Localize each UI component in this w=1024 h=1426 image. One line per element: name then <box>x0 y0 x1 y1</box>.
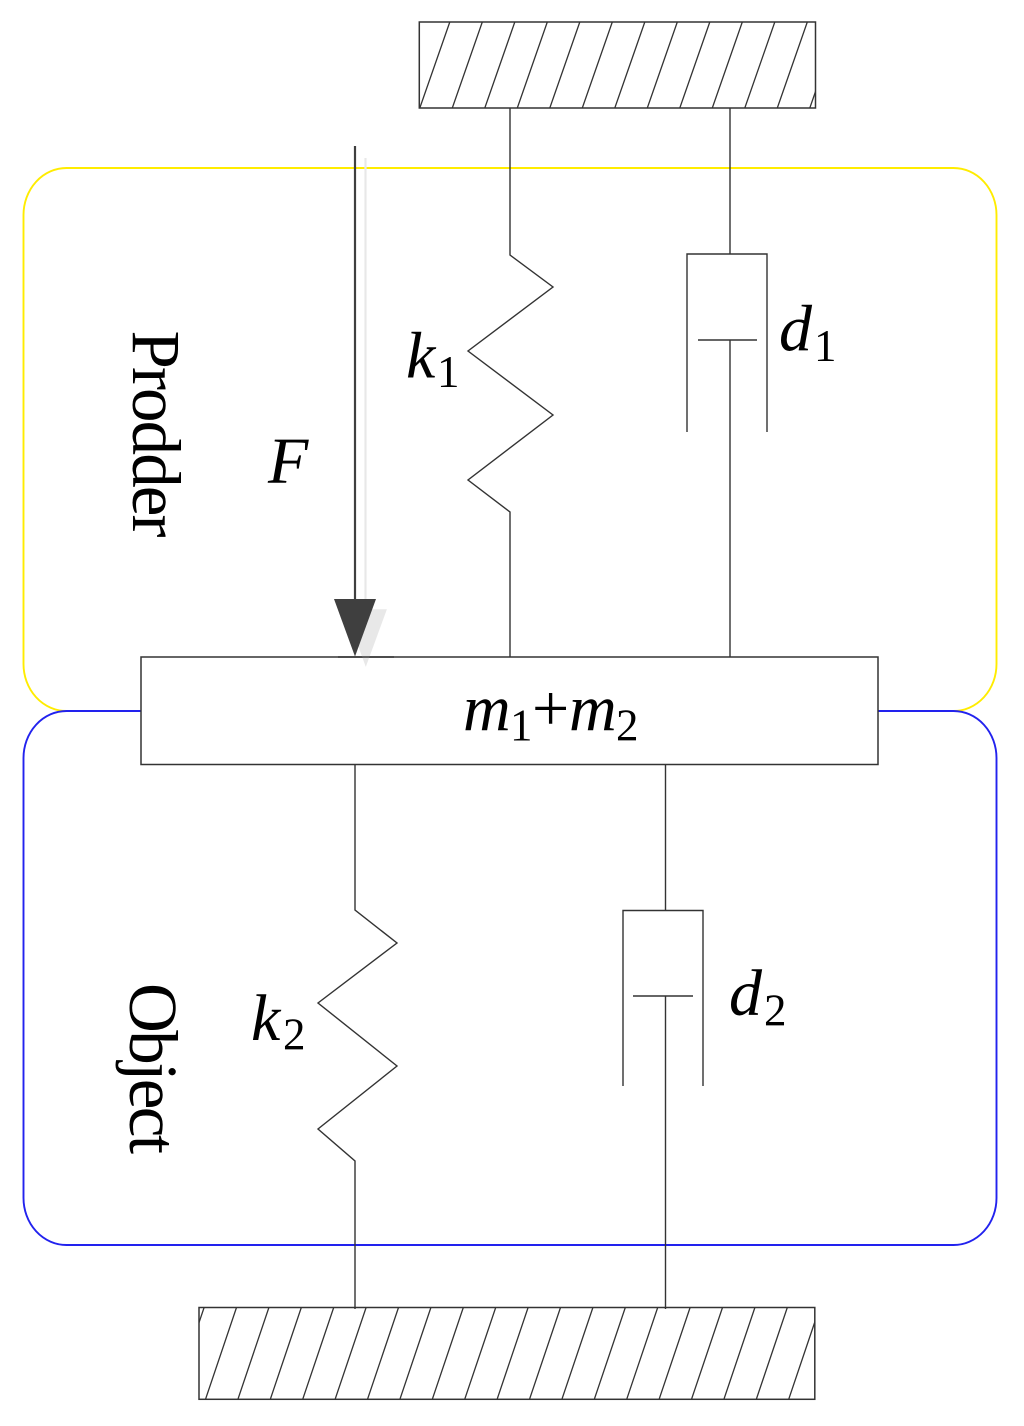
force arrow shadow line <box>364 158 366 620</box>
svg-text:F: F <box>267 425 309 498</box>
svg-text:d: d <box>729 957 763 1030</box>
ground (bottom fixed support, hatched) <box>108 1308 852 1400</box>
Prodder region box (yellow rounded rectangle) <box>24 168 997 711</box>
damper d2 cylinder <box>623 911 703 1087</box>
spring k1 (ceiling to mass) <box>468 108 553 657</box>
damper d2 rod (mass to cylinder) <box>665 765 667 911</box>
svg-text:m: m <box>463 672 511 745</box>
svg-text:1: 1 <box>814 321 837 371</box>
damper d1 rod (ceiling to cylinder) <box>729 108 731 254</box>
damper d1 piston <box>698 339 757 341</box>
svg-text:k: k <box>406 319 437 392</box>
svg-text:2: 2 <box>764 986 787 1036</box>
svg-text:1: 1 <box>437 347 460 397</box>
svg-text:m: m <box>569 672 617 745</box>
Object region box (blue rounded rectangle) <box>24 711 997 1245</box>
svg-text:1: 1 <box>510 700 533 750</box>
damper d1 cylinder <box>687 254 767 432</box>
svg-text:Object: Object <box>115 983 191 1154</box>
svg-text:d: d <box>779 293 813 366</box>
svg-text:2: 2 <box>283 1010 306 1060</box>
mass block m1+m2 <box>141 657 878 765</box>
damper d1 piston rod (to mass) <box>729 340 731 657</box>
spring k2 (mass to ground) <box>318 765 397 1309</box>
svg-text:k: k <box>251 982 282 1055</box>
damper d2 piston <box>633 995 693 997</box>
ceiling (top fixed support, hatched) <box>355 22 873 108</box>
force arrow shadow head <box>345 609 387 667</box>
damper d2 piston rod (to ground) <box>665 996 667 1309</box>
mass top edge redraw over shadow <box>338 656 394 658</box>
svg-text:+: + <box>532 672 569 745</box>
svg-text:Prodder: Prodder <box>118 331 194 538</box>
svg-text:2: 2 <box>616 700 639 750</box>
force arrow F head <box>334 599 376 657</box>
force arrow F line <box>354 146 356 610</box>
